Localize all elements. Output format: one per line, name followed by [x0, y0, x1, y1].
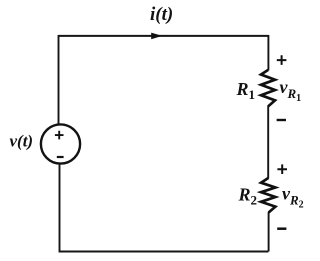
resistor R2: [261, 178, 275, 213]
voltage source V1: [41, 124, 80, 163]
wire bottom: [59, 251, 269, 253]
resistor R1: [261, 70, 275, 107]
polarity - (R2 bottom): [277, 227, 286, 230]
svg-text:i(t): i(t): [150, 4, 173, 25]
svg-text:R2: R2: [238, 185, 258, 208]
svg-text:v(t): v(t): [10, 132, 34, 151]
wire right lower: [268, 212, 270, 252]
polarity - (R1 bottom): [277, 119, 286, 121]
current arrow i(t): [151, 33, 162, 40]
wire top: [59, 35, 269, 37]
polarity + inside source: [55, 131, 64, 140]
svg-text:R1: R1: [236, 79, 256, 102]
wire left lower: [59, 164, 61, 252]
svg-text:vR2: vR2: [282, 184, 304, 211]
polarity + (R2 top): [277, 164, 287, 174]
polarity - inside source: [57, 156, 64, 158]
polarity + (R1 top): [277, 55, 287, 65]
wire left upper: [58, 35, 60, 125]
wire right middle: [267, 106, 269, 179]
wire right upper: [267, 35, 269, 71]
svg-text:vR1: vR1: [280, 77, 302, 104]
